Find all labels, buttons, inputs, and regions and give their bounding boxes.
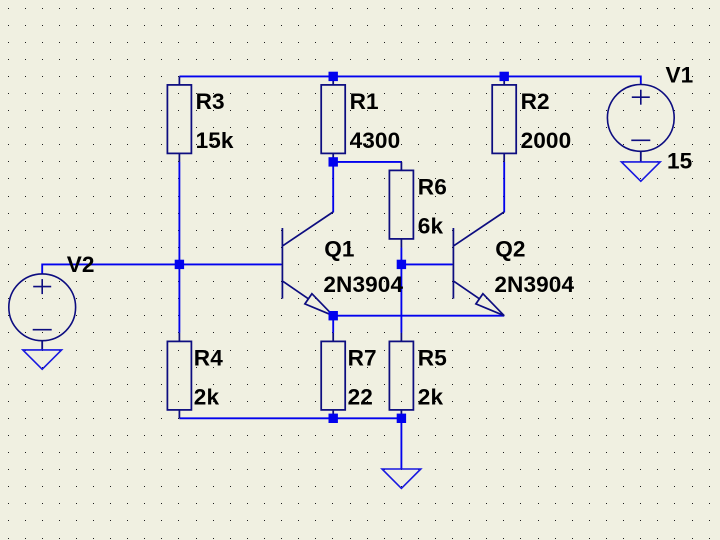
svg-text:22: 22 xyxy=(348,385,373,410)
svg-text:V1: V1 xyxy=(666,63,694,88)
svg-text:15: 15 xyxy=(667,149,692,174)
svg-text:2000: 2000 xyxy=(521,128,572,153)
svg-text:R3: R3 xyxy=(196,89,225,114)
svg-text:2k: 2k xyxy=(194,385,220,410)
svg-text:V2: V2 xyxy=(67,252,95,277)
svg-text:Q2: Q2 xyxy=(495,236,525,261)
svg-text:R1: R1 xyxy=(350,89,379,114)
svg-text:2k: 2k xyxy=(418,385,444,410)
svg-text:2N3904: 2N3904 xyxy=(494,272,574,297)
svg-text:6k: 6k xyxy=(418,214,444,239)
svg-text:15k: 15k xyxy=(196,128,234,153)
svg-text:R2: R2 xyxy=(521,89,550,114)
svg-text:R5: R5 xyxy=(418,346,447,371)
svg-text:4300: 4300 xyxy=(350,128,401,153)
svg-text:R4: R4 xyxy=(194,346,223,371)
svg-text:R7: R7 xyxy=(348,346,377,371)
svg-text:R6: R6 xyxy=(418,175,447,200)
svg-text:2N3904: 2N3904 xyxy=(323,272,403,297)
svg-text:Q1: Q1 xyxy=(324,236,354,261)
